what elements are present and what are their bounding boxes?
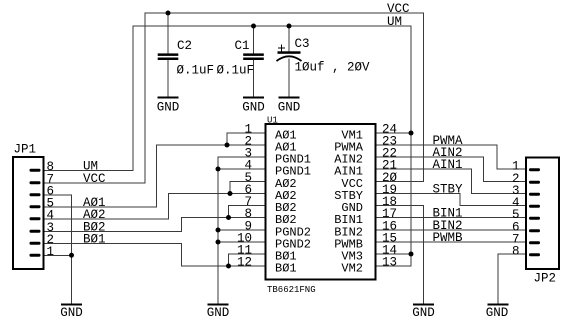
svg-text:GND: GND: [157, 101, 180, 115]
svg-text:Ø.1uF: Ø.1uF: [217, 64, 255, 78]
svg-text:VM2: VM2: [341, 262, 363, 276]
svg-text:AIN1: AIN1: [433, 158, 463, 172]
svg-text:8: 8: [512, 244, 520, 258]
svg-text:GND: GND: [278, 101, 301, 115]
svg-text:PWMB: PWMB: [433, 231, 464, 245]
svg-text:STBY: STBY: [433, 183, 464, 197]
svg-text:BØ1: BØ1: [275, 262, 297, 276]
svg-text:C1: C1: [235, 39, 250, 53]
svg-text:BØ1: BØ1: [83, 232, 106, 246]
svg-text:U1: U1: [267, 116, 278, 126]
svg-text:VCC: VCC: [83, 172, 106, 186]
svg-text:TB6621FNG: TB6621FNG: [267, 285, 316, 295]
svg-text:1: 1: [47, 245, 55, 259]
svg-text:GND: GND: [486, 306, 509, 320]
svg-text:1Øuf , 2ØV: 1Øuf , 2ØV: [295, 61, 371, 75]
svg-text:Ø.1uF: Ø.1uF: [177, 64, 215, 78]
svg-text:GND: GND: [60, 306, 83, 320]
svg-text:VCC: VCC: [387, 2, 410, 16]
svg-text:GND: GND: [207, 306, 230, 320]
svg-text:GND: GND: [242, 101, 265, 115]
svg-text:12: 12: [237, 256, 252, 270]
svg-text:C2: C2: [177, 39, 192, 53]
svg-text:UM: UM: [387, 15, 402, 29]
svg-text:JP1: JP1: [14, 143, 37, 157]
svg-text:GND: GND: [412, 306, 435, 320]
svg-text:JP2: JP2: [534, 272, 557, 286]
svg-text:13: 13: [382, 256, 397, 270]
svg-text:C3: C3: [295, 37, 310, 51]
